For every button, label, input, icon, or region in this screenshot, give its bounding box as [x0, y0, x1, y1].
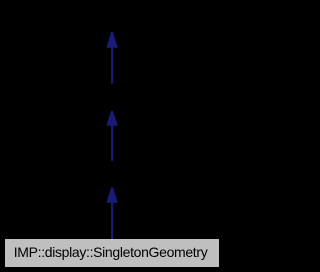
inheritance arrow 1 (top) [106, 32, 117, 84]
class node IMP::display::SingletonGeometry [5, 239, 219, 267]
inheritance arrow 3 (bottom) [106, 187, 117, 239]
inheritance arrow 2 (middle) [106, 111, 117, 161]
